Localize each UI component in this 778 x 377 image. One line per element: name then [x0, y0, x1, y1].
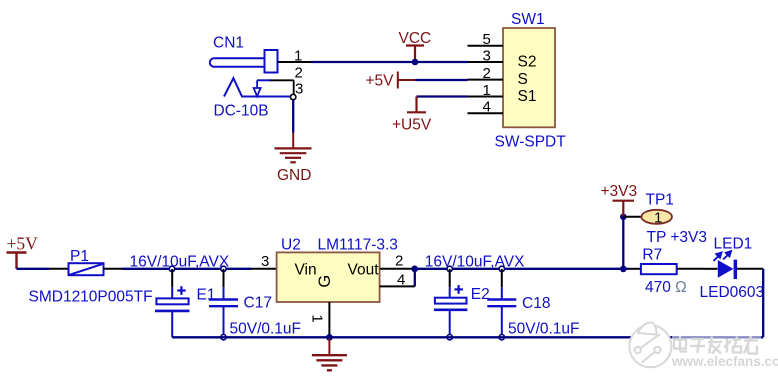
power port +U5V bar — [407, 97, 426, 113]
svg-text:U2: U2 — [281, 237, 301, 254]
wire LED to corner — [737, 268, 763, 270]
fuse P1 body — [69, 263, 104, 275]
svg-text:2: 2 — [483, 65, 491, 82]
ground GND stem — [292, 133, 294, 149]
CN1 switch zigzag — [224, 78, 291, 96]
svg-text:3: 3 — [483, 48, 491, 65]
resistor R7 pin left — [629, 268, 641, 270]
svg-text:50V/0.1uF: 50V/0.1uF — [508, 321, 580, 338]
svg-text:SMD1210P005TF: SMD1210P005TF — [29, 289, 153, 306]
ground U2 stem — [328, 337, 330, 355]
wire Vout run — [415, 268, 629, 270]
svg-text:3: 3 — [295, 81, 303, 98]
wire riser to +3V3 — [622, 217, 624, 269]
svg-text:E2: E2 — [471, 286, 490, 303]
svg-text:4: 4 — [397, 272, 405, 289]
svg-text:GND: GND — [277, 167, 311, 184]
wire +5V to P1 — [17, 268, 50, 270]
svg-text:+5V: +5V — [366, 73, 395, 90]
junction U2 gnd — [326, 334, 333, 341]
wire pin4 to pin2 — [414, 269, 416, 287]
svg-text:C18: C18 — [522, 295, 550, 312]
LED1 triangle — [718, 260, 734, 278]
svg-text:R7: R7 — [642, 247, 662, 264]
capacitor E1 — [155, 269, 190, 337]
junction pin2 — [411, 266, 418, 273]
svg-text:CN1: CN1 — [213, 35, 244, 52]
junction E2 bottom — [447, 335, 452, 340]
ground U2 bars — [312, 355, 347, 370]
wire +U5V to SW1 pin1 — [417, 95, 468, 97]
LED1 pin left — [704, 268, 718, 270]
CN1 pin 1 — [278, 61, 312, 63]
bottom ground rail — [172, 336, 763, 338]
junction E2 top — [447, 266, 452, 271]
char dian — [674, 340, 686, 349]
U2 pin 3 — [251, 268, 277, 270]
wire CN1 pin1 to SW1 pin3 — [311, 61, 468, 63]
svg-text:LM1117-3.3: LM1117-3.3 — [318, 237, 398, 254]
svg-text:1: 1 — [654, 209, 662, 226]
wire right edge down — [762, 269, 764, 338]
SW1 pin 1 — [468, 96, 504, 98]
svg-text:S1: S1 — [518, 88, 537, 105]
svg-text:S2: S2 — [518, 54, 537, 71]
svg-text:LED1: LED1 — [714, 236, 753, 253]
svg-text:1: 1 — [309, 314, 326, 322]
svg-text:1: 1 — [294, 48, 302, 65]
svg-text:SW-SPDT: SW-SPDT — [495, 134, 567, 151]
junction E1 top — [169, 266, 174, 271]
regulator U2 body — [277, 252, 380, 302]
svg-text:+U5V: +U5V — [392, 117, 432, 134]
resistor R7 body — [641, 264, 677, 274]
fuse P1 pin left — [50, 268, 69, 270]
svg-text:16V/10uF,AVX: 16V/10uF,AVX — [130, 253, 230, 270]
svg-text:G: G — [316, 275, 334, 288]
wire P1 to U2 — [123, 268, 252, 270]
char shao — [726, 339, 728, 353]
capacitor C17 — [209, 269, 238, 337]
U2 pin 4 — [380, 285, 415, 287]
SW1 pin 4 — [468, 112, 504, 114]
junction C18 top — [499, 266, 504, 271]
CN1 switch arrow — [254, 80, 271, 96]
svg-text:DC-10B: DC-10B — [214, 103, 269, 120]
U2 pin 1 — [328, 302, 330, 337]
switch SW1 body — [503, 28, 555, 127]
svg-text:S: S — [518, 71, 528, 88]
test point TP1 ellipse — [641, 210, 672, 224]
svg-text:50V/0.1uF: 50V/0.1uF — [230, 321, 302, 338]
char fa — [708, 341, 722, 343]
CN1 pin 2 contact — [270, 80, 294, 94]
svg-text:5: 5 — [483, 31, 491, 48]
junction riser top — [620, 214, 627, 221]
U2 pin 2 — [380, 268, 415, 270]
capacitor C18 — [487, 269, 516, 337]
svg-text:16V/10uF,AVX: 16V/10uF,AVX — [425, 253, 525, 270]
svg-text:www.elecfans.com: www.elecfans.com — [671, 354, 778, 369]
svg-text:C17: C17 — [244, 295, 272, 312]
wire pin3 to GND — [292, 100, 294, 133]
SW1 pin 3 — [468, 61, 504, 63]
power port +3V3 bar — [613, 201, 635, 217]
capacitor E2 — [434, 269, 468, 337]
LED1 cathode bar — [734, 260, 738, 279]
svg-text:Vout: Vout — [348, 262, 380, 279]
svg-text:E1: E1 — [197, 287, 216, 304]
svg-text:4: 4 — [483, 99, 491, 116]
svg-text:TP1: TP1 — [646, 191, 674, 208]
SW1 pin 5 — [468, 45, 504, 47]
watermark chinese characters — [672, 334, 761, 354]
svg-text:1: 1 — [483, 82, 491, 99]
svg-text:Vin: Vin — [295, 262, 317, 279]
SW1 pin 2 — [468, 79, 504, 81]
LED1 emission arrows — [714, 251, 732, 261]
junction riser bottom — [620, 266, 627, 273]
svg-text:TP +3V3: TP +3V3 — [647, 229, 707, 246]
svg-text:+3V3: +3V3 — [601, 183, 638, 200]
junction VCC — [412, 59, 419, 66]
junction C17 top — [221, 266, 226, 271]
char zi — [691, 338, 704, 340]
CN1 switch circle — [291, 94, 296, 99]
svg-text:2: 2 — [395, 253, 403, 270]
power port +5V bar (bottom) — [7, 253, 27, 269]
watermark logo disc — [629, 322, 671, 367]
svg-text:SW1: SW1 — [511, 11, 545, 28]
junction C18 bottom — [499, 335, 504, 340]
power port +5V bar — [398, 72, 416, 89]
svg-text:+5V: +5V — [7, 234, 39, 254]
connector CN1 barrel — [210, 50, 278, 73]
svg-text:470 Ω: 470 Ω — [645, 279, 687, 296]
wire to test point TP1 — [623, 216, 641, 218]
resistor R7 pin right — [677, 268, 704, 270]
fuse P1 pin right — [104, 268, 123, 270]
char you — [744, 339, 758, 341]
svg-text:3: 3 — [261, 253, 269, 270]
junction C17 bottom — [221, 335, 226, 340]
power port VCC bar — [406, 46, 424, 63]
svg-text:P1: P1 — [70, 248, 89, 265]
wire +5V to SW1 pin2 — [416, 79, 468, 81]
ground GND bars — [275, 148, 312, 162]
svg-text:LED0603: LED0603 — [700, 284, 765, 301]
svg-text:2: 2 — [295, 65, 303, 82]
